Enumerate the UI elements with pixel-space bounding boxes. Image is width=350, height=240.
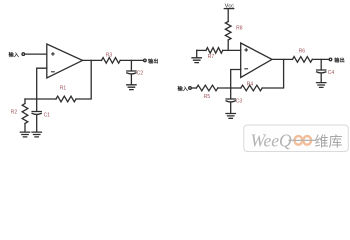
svg-text:R1: R1	[60, 85, 67, 91]
svg-text:R3: R3	[106, 52, 113, 58]
svg-text:输入: 输入	[9, 51, 20, 59]
svg-text:输出: 输出	[148, 57, 158, 65]
svg-text:Vcc: Vcc	[225, 3, 234, 9]
svg-text:输出: 输出	[334, 56, 344, 64]
svg-text:R7: R7	[208, 54, 215, 60]
svg-text:R2: R2	[11, 110, 18, 116]
svg-text:C2: C2	[137, 71, 144, 77]
svg-text:C1: C1	[44, 113, 51, 119]
svg-text:R4: R4	[247, 81, 254, 87]
svg-text:C4: C4	[328, 70, 335, 76]
svg-text:维库: 维库	[315, 133, 343, 149]
svg-text:WeeQ: WeeQ	[251, 130, 293, 150]
svg-text:R8: R8	[236, 26, 243, 32]
svg-text:R5: R5	[204, 94, 211, 100]
svg-text:R6: R6	[299, 48, 306, 54]
svg-text:C3: C3	[236, 98, 243, 104]
svg-text:输入: 输入	[178, 84, 189, 92]
